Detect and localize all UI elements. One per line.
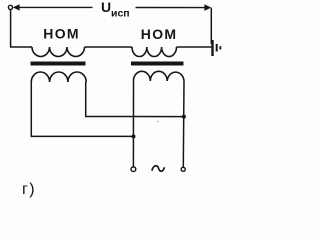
output terminal right bbox=[181, 167, 185, 171]
wire: T1 secondary right terminal down and right to T2 right terminal bbox=[86, 82, 184, 117]
wire: right drop from dimension line to ground bbox=[210, 8, 212, 44]
secondary winding T2 bbox=[133, 71, 184, 81]
ground (earth) symbol, right-facing bbox=[211, 40, 213, 56]
primary winding T2 bbox=[132, 47, 177, 57]
wire: top dimension line left segment bbox=[19, 6, 93, 8]
primary winding T1 bbox=[32, 47, 85, 57]
core of transformer T2 bbox=[131, 62, 184, 66]
junction node at (183.9,116.6) bbox=[182, 115, 186, 119]
core of transformer T1 bbox=[31, 62, 86, 66]
secondary winding T1 bbox=[31, 72, 86, 82]
svg-text:НОМ: НОМ bbox=[141, 26, 178, 42]
wire: T1 secondary left terminal down and right to node bbox=[31, 82, 133, 136]
output terminal left bbox=[131, 167, 136, 172]
junction node at (133.5,136.4) bbox=[132, 134, 136, 138]
arrowhead left of Uисп dimension line bbox=[13, 4, 20, 10]
svg-text:г): г) bbox=[22, 181, 36, 198]
wire: top dimension line right segment bbox=[136, 7, 206, 9]
wire: T2 secondary right terminal down to output bbox=[182, 81, 185, 167]
wire: between T1 and T2 primaries bbox=[85, 46, 133, 48]
svg-text:НОМ: НОМ bbox=[43, 26, 80, 42]
AC source symbol ~ bbox=[152, 166, 165, 172]
node: top-left terminal circle bbox=[8, 5, 12, 9]
arrowhead right of Uисп dimension line bbox=[204, 4, 211, 11]
svg-text:U: U bbox=[101, 0, 111, 15]
wire: left drop from terminal to primary row bbox=[11, 10, 32, 48]
wire: T2 primary to ground bbox=[177, 46, 213, 48]
wire: T2 secondary left terminal down to output bbox=[132, 81, 134, 167]
svg-text:исп: исп bbox=[111, 8, 130, 20]
